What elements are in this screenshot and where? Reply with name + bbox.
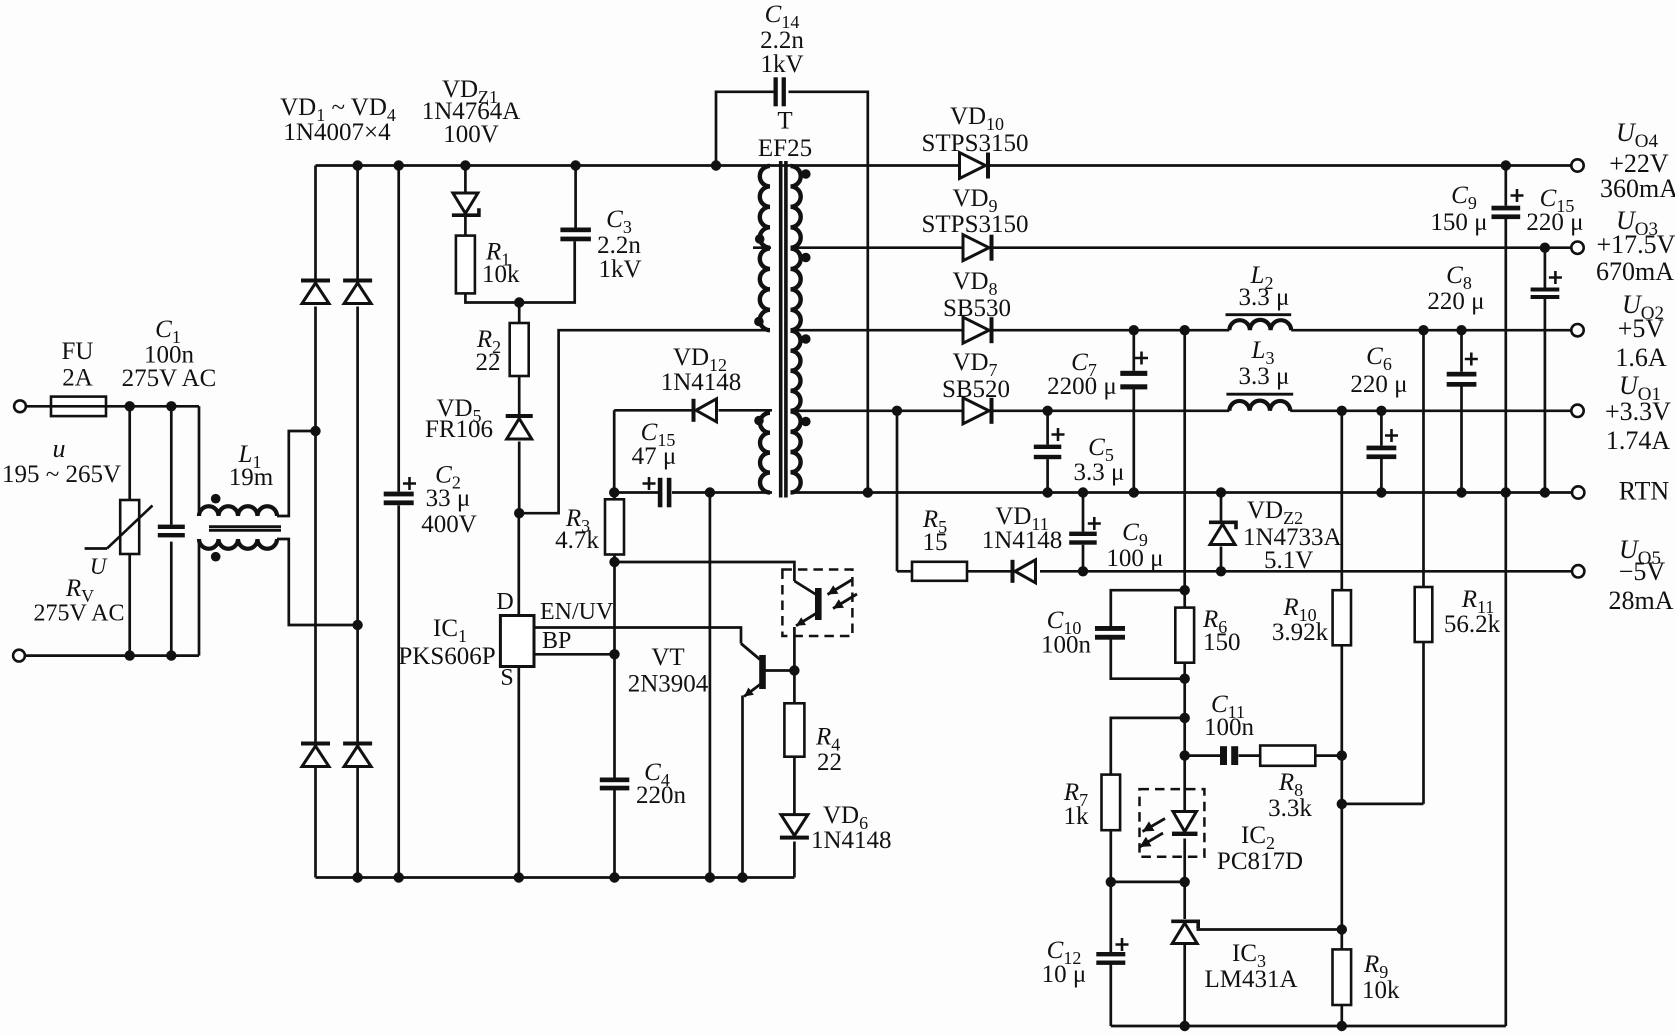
wire R10 column — [1340, 411, 1343, 590]
diode VD3 — [301, 742, 330, 746]
resistor R8 3.3k — [1260, 746, 1315, 766]
junction dot BP node — [609, 649, 619, 659]
capacitor C4 220n — [600, 778, 630, 783]
resistor R5 15 — [912, 562, 967, 581]
wire drain link to primary bottom — [519, 330, 765, 513]
svg-text:28mA: 28mA — [1609, 586, 1674, 615]
svg-text:10k: 10k — [1362, 977, 1400, 1004]
wire C2 column — [397, 166, 400, 492]
transformer secondary winding B — [791, 249, 801, 331]
wire top rail / +22V bus — [316, 164, 960, 167]
zener VDZ2 1N4733A 5.1V — [1209, 522, 1236, 529]
svg-text:−5V: −5V — [1619, 557, 1666, 586]
resistor R11 56.2k — [1415, 587, 1433, 642]
svg-text:T: T — [777, 108, 792, 135]
wire R7-LED bottom link — [1111, 881, 1185, 884]
wire C4 branch — [613, 654, 616, 777]
svg-text:3.92k: 3.92k — [1272, 619, 1329, 646]
resistor R1 10k — [456, 236, 475, 294]
svg-text:2N3904: 2N3904 — [628, 671, 709, 698]
svg-text:22: 22 — [817, 749, 842, 776]
junction dots R10 column — [1337, 750, 1347, 760]
wire C8 branch — [1460, 330, 1463, 372]
wire C9 150u branch — [1504, 166, 1507, 206]
svg-text:1N4007×4: 1N4007×4 — [283, 119, 391, 146]
IC3 LM431A shunt regulator — [1171, 921, 1198, 928]
resistor R10 3.92k — [1333, 590, 1351, 645]
capacitor C15 47u — [658, 478, 663, 508]
svg-text:D: D — [496, 589, 513, 615]
transformer auxiliary winding — [760, 413, 770, 493]
wire +5V bus — [792, 329, 963, 332]
wire primary ground rail — [316, 876, 795, 879]
resistor R2 22 — [510, 323, 529, 376]
svg-text:U: U — [90, 554, 108, 579]
svg-text:PC817D: PC817D — [1217, 848, 1303, 875]
capacitor C7 2200u — [1120, 371, 1147, 376]
wire C11 node — [1183, 718, 1186, 812]
wire IC1 D pin — [517, 513, 520, 615]
svg-text:220n: 220n — [636, 782, 687, 809]
wire ground return riser — [1504, 493, 1507, 1027]
svg-text:275V AC: 275V AC — [34, 601, 125, 627]
diode VD9 STPS3150 — [963, 235, 989, 261]
svg-text:2.2n: 2.2n — [597, 232, 641, 259]
capacitor C9 100u — [1069, 532, 1097, 536]
svg-text:u: u — [53, 434, 66, 463]
wire R3 bottom to optocoupler collector — [615, 562, 795, 581]
diode VD7 SB520 — [963, 398, 989, 424]
svg-text:150 μ: 150 μ — [1430, 209, 1487, 236]
svg-text:56.2k: 56.2k — [1444, 611, 1501, 638]
junction dot R1 C3 R2 node — [514, 297, 524, 307]
junction dot R3 bottom — [609, 557, 619, 567]
wire C3 branch — [574, 166, 577, 228]
wire C15 aux line — [614, 491, 658, 494]
wire IC3 ref to divider — [1197, 928, 1342, 931]
capacitor C5 3.3u — [1034, 445, 1062, 449]
transformer secondary winding D — [791, 412, 801, 493]
svg-text:360mA: 360mA — [1600, 174, 1675, 203]
diode VD5 FR106 — [506, 414, 533, 418]
wire VDZ1-R1 branch — [464, 166, 467, 194]
svg-text:PKS606P: PKS606P — [398, 643, 495, 670]
svg-text:1.74A: 1.74A — [1606, 426, 1671, 455]
capacitor C14 2.2n 1kV — [774, 77, 778, 106]
svg-text:100n: 100n — [1041, 632, 1092, 659]
wire aux ground drop — [709, 493, 712, 878]
wire R6 column from +5V — [1183, 330, 1186, 590]
capacitor C1 — [158, 525, 185, 529]
svg-text:S: S — [500, 665, 513, 691]
junction dot VD5 drain node — [514, 508, 524, 518]
resistor R4 22 — [784, 703, 804, 756]
wire IC2 LED cathode — [1183, 839, 1186, 920]
transformer secondary winding C — [791, 331, 801, 411]
common-mode choke L1 — [199, 506, 277, 516]
terminal AC input L — [14, 400, 26, 412]
wire R9 branch — [1340, 930, 1343, 950]
terminal UO2 +5V — [1571, 324, 1583, 336]
wire VT emitter to ground — [741, 696, 744, 878]
capacitor C15b 220u — [1531, 288, 1560, 292]
diode VD12 1N4148 — [692, 399, 696, 422]
wire VT base — [764, 669, 794, 672]
svg-text:1N4148: 1N4148 — [661, 369, 742, 396]
svg-text:SB520: SB520 — [942, 376, 1010, 403]
resistor R9 10k — [1333, 949, 1352, 1005]
diode VD2 — [343, 279, 372, 283]
junction dot R7 bottom — [1106, 877, 1116, 887]
diode VD1 — [301, 279, 330, 283]
wire AC live input — [27, 405, 52, 408]
wire IC1 BP pin — [534, 653, 615, 656]
svg-text:1N4148: 1N4148 — [811, 827, 892, 854]
terminal UO1 +3.3V — [1571, 405, 1583, 417]
wire C6 branch — [1380, 411, 1383, 446]
transformer primary winding 2 — [760, 249, 770, 331]
svg-text:47 μ: 47 μ — [632, 443, 677, 470]
wire IC1 S pin — [517, 667, 520, 878]
wire optocoupler emitter to node — [793, 627, 796, 671]
svg-text:100V: 100V — [443, 121, 499, 148]
svg-text:3.3 μ: 3.3 μ — [1239, 363, 1290, 390]
wire R2-VD5 chain — [518, 303, 521, 324]
svg-text:BP: BP — [542, 628, 571, 654]
transformer secondary winding A — [791, 166, 801, 248]
wire RV branch — [128, 406, 131, 500]
svg-text:3.3 μ: 3.3 μ — [1074, 459, 1125, 486]
terminal AC input N — [13, 650, 25, 662]
wire AC neutral input — [26, 654, 200, 657]
resistor R7 1k — [1102, 775, 1121, 831]
wire R3 column — [613, 493, 616, 500]
wire C11-R8 link — [1185, 754, 1220, 757]
inductor L3 3.3u — [1226, 393, 1293, 396]
svg-text:EF25: EF25 — [758, 135, 812, 162]
svg-text:VT: VT — [651, 644, 684, 671]
wire L1 bottom output to bridge — [277, 539, 358, 625]
wire R11 column — [1422, 330, 1425, 587]
svg-text:EN/UV: EN/UV — [540, 599, 614, 625]
junction dots secondary ground rail — [1180, 1021, 1190, 1031]
junction dots +3.3V bus — [892, 406, 902, 416]
capacitor C3 2.2n 1kV — [560, 228, 591, 233]
svg-text:22: 22 — [476, 349, 501, 376]
terminal UO3 +17.5V — [1571, 242, 1583, 254]
wire C10 parallel branch — [1111, 590, 1185, 626]
svg-text:1kV: 1kV — [760, 51, 803, 78]
junction dots aux line — [609, 487, 619, 497]
svg-text:10k: 10k — [482, 261, 520, 288]
svg-text:2A: 2A — [62, 365, 93, 392]
capacitor C8 220u — [1447, 372, 1477, 377]
wire R7 branch — [1111, 718, 1185, 775]
junction dots +5V bus — [1129, 325, 1139, 335]
svg-text:400V: 400V — [421, 511, 477, 538]
svg-text:2.2n: 2.2n — [760, 27, 804, 54]
wire L1 top output to bridge — [277, 431, 316, 516]
svg-text:SB530: SB530 — [943, 295, 1011, 322]
wire C14 loop — [716, 92, 774, 166]
svg-text:100 μ: 100 μ — [1106, 545, 1163, 572]
diode VD4 — [343, 742, 372, 746]
wire C15 220u branch — [1544, 248, 1547, 288]
diode VD11 1N4148 — [1011, 560, 1015, 583]
svg-text:RTN: RTN — [1619, 477, 1670, 506]
wire L1 left leads — [198, 406, 201, 516]
wire +3.3V bus — [792, 409, 963, 412]
junction dots R6 column — [1180, 585, 1190, 595]
svg-text:100n: 100n — [1204, 714, 1255, 741]
svg-text:19m: 19m — [229, 464, 274, 491]
svg-text:1.6A: 1.6A — [1615, 343, 1667, 372]
svg-text:10 μ: 10 μ — [1042, 961, 1087, 988]
wire R4-VD6 chain — [793, 671, 796, 704]
junction dots AC input — [125, 401, 135, 411]
terminal UO4 +22V — [1571, 159, 1583, 171]
svg-text:195 ~ 265V: 195 ~ 265V — [2, 461, 121, 488]
svg-text:1k: 1k — [1064, 803, 1090, 830]
varistor RV — [120, 500, 139, 554]
svg-text:150: 150 — [1203, 629, 1241, 656]
svg-text:33 μ: 33 μ — [426, 485, 471, 512]
zener VDZ1 1N4764A — [453, 193, 478, 213]
svg-text:STPS3150: STPS3150 — [922, 211, 1029, 238]
junction dots -5V bus — [1078, 566, 1088, 576]
wire left bridge column — [314, 166, 317, 279]
wire C9 100u branch — [1082, 493, 1085, 532]
wire R11 to divider node — [1342, 803, 1424, 806]
capacitor C9b 150u — [1492, 206, 1521, 211]
svg-text:2200 μ: 2200 μ — [1047, 373, 1117, 400]
wire VD12 line / aux winding top — [614, 409, 691, 412]
wire IC3 anode — [1183, 943, 1186, 1026]
junction dots primary ground rail — [352, 872, 362, 882]
svg-text:220 μ: 220 μ — [1350, 371, 1407, 398]
junction dots RTN bus — [863, 487, 873, 497]
svg-text:+5V: +5V — [1618, 314, 1665, 343]
wire -5V bus — [896, 411, 899, 572]
IC U1 PKS606P switching regulator — [500, 616, 534, 667]
junction dot +17.5V C15b — [1540, 243, 1550, 253]
diode VD6 1N4148 — [781, 815, 808, 836]
wire +17.5V bus — [792, 246, 963, 249]
transformer primary winding 1 — [760, 166, 770, 248]
resistor R3 4.7k — [605, 499, 624, 554]
wire RTN bus — [792, 491, 1572, 494]
junction dot VT base node — [789, 665, 799, 675]
inductor L2 3.3u — [1226, 313, 1292, 316]
wire right bridge column — [356, 166, 359, 279]
svg-text:1kV: 1kV — [598, 256, 641, 283]
wire C5 branch — [1046, 411, 1049, 445]
resistor R6 150 — [1175, 608, 1194, 663]
optocoupler IC2 phototransistor side — [782, 570, 852, 637]
svg-text:STPS3150: STPS3150 — [922, 130, 1029, 157]
fuse FU 2A — [51, 397, 106, 417]
wire IC1 EN/UV pin to VT collector — [534, 628, 741, 644]
junction dots bridge midpoints — [310, 426, 320, 436]
svg-text:5.1V: 5.1V — [1264, 547, 1313, 574]
wire secondary ground rail — [1111, 1025, 1506, 1028]
svg-text:+17.5V: +17.5V — [1597, 230, 1675, 259]
svg-text:670mA: 670mA — [1596, 257, 1674, 286]
transistor VT 2N3904 — [759, 655, 766, 689]
svg-text:+3.3V: +3.3V — [1605, 397, 1671, 426]
svg-text:15: 15 — [923, 529, 948, 556]
transformer T EF25 core — [779, 161, 783, 498]
svg-text:1N4148: 1N4148 — [982, 527, 1063, 554]
svg-text:3.3 μ: 3.3 μ — [1239, 284, 1290, 311]
svg-text:275V AC: 275V AC — [122, 365, 217, 392]
diode VD10 STPS3150 — [960, 153, 986, 179]
wire C1 branch — [170, 406, 173, 524]
svg-text:FR106: FR106 — [425, 416, 493, 443]
junction dots top rail — [352, 160, 362, 170]
wire C12 branch — [1109, 882, 1112, 952]
wire VDZ2 branch — [1220, 493, 1223, 521]
terminal UO5 -5V — [1572, 565, 1584, 577]
svg-text:FU: FU — [62, 338, 94, 365]
svg-text:3.3k: 3.3k — [1268, 795, 1312, 822]
svg-text:LM431A: LM431A — [1204, 966, 1297, 993]
capacitor C10 100n — [1095, 626, 1125, 631]
capacitor C11 100n — [1220, 746, 1227, 765]
capacitor C2 33u 400V — [384, 492, 414, 497]
wire C7 branch — [1132, 330, 1135, 371]
wire primary winding tap tick — [753, 246, 771, 249]
optocoupler IC2 LED side PC817D — [1140, 789, 1205, 857]
svg-text:220 μ: 220 μ — [1526, 209, 1583, 236]
svg-text:220 μ: 220 μ — [1427, 288, 1484, 315]
capacitor C6 220u — [1367, 446, 1397, 451]
diode VD8 SB530 — [963, 317, 989, 343]
svg-text:4.7k: 4.7k — [555, 527, 599, 554]
terminal RTN — [1572, 486, 1584, 498]
capacitor C12 10u — [1096, 952, 1125, 956]
